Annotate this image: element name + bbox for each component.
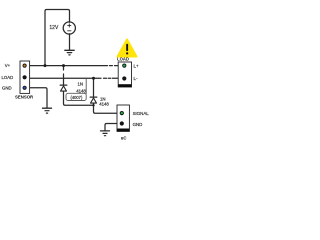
svg-text:LOAD: LOAD [2, 75, 14, 80]
svg-text:1N: 1N [100, 96, 106, 101]
svg-text:4148: 4148 [76, 89, 86, 94]
svg-text:L+: L+ [134, 63, 140, 68]
svg-text:GND: GND [133, 122, 143, 127]
svg-text:12V: 12V [49, 25, 59, 31]
svg-text:V+: V+ [5, 63, 11, 68]
svg-text:uC: uC [121, 136, 127, 141]
svg-text:4148: 4148 [99, 102, 109, 107]
svg-text:(4007): (4007) [70, 95, 82, 100]
svg-text:1N: 1N [77, 82, 83, 87]
svg-text:SIGNAL: SIGNAL [133, 111, 150, 116]
svg-text:SENSOR: SENSOR [15, 95, 34, 100]
svg-text:LOAD: LOAD [117, 57, 129, 62]
svg-text:GND: GND [2, 85, 12, 90]
svg-text:L-: L- [134, 76, 139, 81]
